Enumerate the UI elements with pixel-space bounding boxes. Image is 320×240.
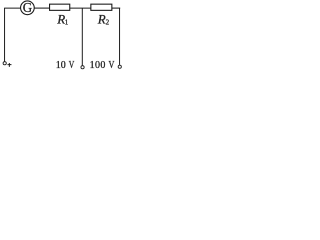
wire right vertical [119, 8, 121, 65]
svg-text:100: 100 [90, 60, 106, 71]
label 10 V [56, 59, 75, 71]
galvanometer G [21, 0, 35, 15]
wire left vertical [4, 8, 6, 62]
svg-text:2: 2 [106, 18, 110, 26]
wire R1 to R2 [70, 7, 91, 9]
resistor R2 [91, 4, 112, 10]
terminal 100 V [118, 65, 121, 68]
label R1 [56, 11, 68, 26]
wire G to R1 [34, 7, 49, 9]
wire middle vertical (junction node to 10 V terminal) [81, 8, 83, 66]
svg-text:V: V [109, 59, 115, 70]
svg-text:10: 10 [56, 60, 66, 71]
label R2 [97, 11, 110, 26]
svg-text:V: V [69, 59, 75, 70]
label 100 V [90, 59, 115, 71]
wire R2 to right corner [112, 7, 120, 9]
polarity + sign [7, 63, 11, 67]
svg-text:G: G [23, 0, 33, 15]
svg-text:1: 1 [65, 18, 69, 26]
wire top left horizontal [4, 7, 21, 9]
terminal 10 V [81, 66, 84, 69]
terminal left (positive) [3, 62, 6, 65]
svg-text:R: R [97, 11, 106, 26]
resistor R1 [50, 4, 70, 10]
